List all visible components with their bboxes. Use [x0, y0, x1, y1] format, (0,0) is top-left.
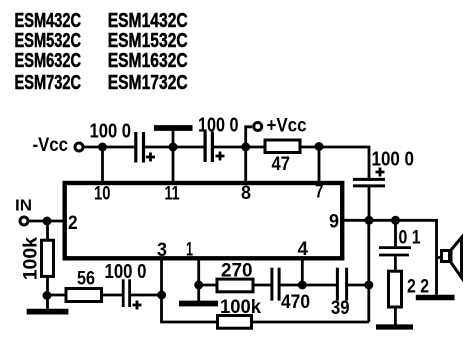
resistor 100k (input) [42, 240, 54, 276]
resistor 100k (feedback) [218, 316, 252, 329]
svg-text:0 1: 0 1 [399, 228, 421, 249]
svg-text:100 0: 100 0 [90, 121, 132, 143]
wire 270 to cap 470 [255, 284, 272, 287]
polarity + [216, 152, 225, 161]
wire IN to pin 2 [29, 220, 65, 223]
wire -Vcc rail [83, 146, 135, 149]
wire ground node to 56 [47, 294, 66, 297]
wire to pin 8 node [214, 146, 264, 149]
ground (below speaker) [416, 295, 455, 301]
svg-text:ESM532C: ESM532C [15, 30, 82, 52]
svg-text:4: 4 [298, 239, 309, 260]
wire right vertical (pin9 node to bottom corner) [367, 220, 370, 322]
junction pin 7 node [315, 142, 324, 151]
capacitor 100.0 (left supply decoupling) [136, 132, 144, 163]
svg-text:10: 10 [94, 184, 111, 205]
junction input node [43, 217, 52, 226]
junction pin 8 node [241, 143, 250, 152]
wire input node down to 100k [46, 221, 49, 240]
wire cap 39 to right vertical [348, 284, 369, 287]
wire pin 11 stub [172, 147, 175, 183]
svg-text:100k: 100k [21, 237, 42, 281]
wire pin 1 node to ground [197, 285, 200, 301]
wire speaker stub [437, 256, 441, 259]
node +Vcc terminal [246, 123, 262, 148]
svg-text:IN: IN [15, 198, 32, 215]
wire pin 9 output rail [342, 220, 437, 294]
wire 470 to pin 4 node and cap 39 [281, 284, 337, 287]
svg-text:2 2: 2 2 [407, 277, 429, 298]
svg-text:ESM1732C: ESM1732C [108, 72, 188, 94]
ground (below pin 1) [179, 301, 218, 307]
wire pin 1 node to 270 [199, 284, 216, 287]
svg-text:470: 470 [281, 292, 310, 313]
polarity + [376, 168, 385, 177]
part number list [15, 10, 188, 94]
junction pin 11 node [169, 143, 178, 152]
resistor 270 [217, 279, 253, 292]
svg-text:47: 47 [272, 154, 291, 175]
capacitor 39 [337, 268, 346, 301]
svg-text:100k: 100k [220, 297, 261, 318]
node IN terminal [20, 217, 28, 225]
polarity + [133, 301, 142, 310]
capacitor 470 [272, 268, 279, 301]
svg-text:ESM632C: ESM632C [15, 50, 82, 72]
svg-text:100 0: 100 0 [198, 115, 239, 137]
junction cap 39 node [364, 281, 373, 290]
wire 100k to ground node [46, 276, 49, 308]
wire pin 7 stub [318, 147, 321, 183]
svg-text:ESM1432C: ESM1432C [108, 10, 188, 32]
wire 100k to right vertical [253, 321, 369, 324]
wire pin 1 stub [197, 258, 200, 285]
junction Zobel node [391, 216, 400, 225]
capacitor 0.1 (Zobel) [379, 248, 411, 255]
wire between capacitors [145, 146, 204, 149]
junction pin 10 node [98, 143, 107, 152]
junction pin 1 node [194, 281, 203, 290]
polarity + [146, 153, 155, 162]
capacitor 100.0 (second supply decoupling) [205, 132, 212, 163]
speaker LS [442, 238, 462, 278]
wire pin 3 stub [160, 258, 163, 295]
junction pin 9 / bootstrap node [365, 216, 374, 225]
wire pin 8 stub [244, 147, 247, 183]
svg-text:270: 270 [221, 261, 253, 282]
node -Vcc terminal [75, 143, 83, 151]
ground (top, above pin 11) [154, 128, 193, 147]
wire pin7 node to right corner [302, 147, 370, 179]
junction pin 4 node [298, 281, 307, 290]
resistor 56 [66, 289, 102, 302]
op-amp IC ESMx32C (amplifier block) [65, 183, 343, 258]
ground (below 2.2) [376, 324, 413, 329]
svg-text:ESM1632C: ESM1632C [108, 50, 188, 72]
wire pin 10 stub [101, 147, 104, 183]
capacitor 100.0 (output supply, polarized) [353, 179, 385, 186]
svg-text:ESM1532C: ESM1532C [108, 30, 188, 52]
wire 2.2 to ground [394, 309, 397, 327]
svg-text:3: 3 [157, 240, 167, 261]
wire pin9 node to cap 0.1 [394, 220, 397, 246]
svg-text:11: 11 [165, 184, 180, 205]
resistor 2.2 (Zobel) [389, 271, 402, 307]
wire 56 to cap [102, 294, 124, 297]
svg-text:-Vcc: -Vcc [33, 135, 69, 156]
capacitor 100.0 (feedback, polarized) [123, 279, 129, 307]
svg-text:1: 1 [186, 240, 193, 261]
junction pin 3 node [157, 291, 166, 300]
svg-text:9: 9 [329, 212, 339, 233]
svg-text:39: 39 [331, 298, 350, 319]
ground (below input 100k) [27, 309, 69, 315]
resistor 47 [265, 140, 300, 153]
svg-text:ESM732C: ESM732C [15, 72, 82, 94]
svg-text:100 0: 100 0 [105, 261, 147, 283]
junction feedback node [43, 291, 52, 300]
wire cap to pin9 rail [368, 186, 371, 220]
wire cap 0.1 to resistor 2.2 [394, 257, 397, 270]
svg-text:56: 56 [77, 269, 95, 290]
svg-text:2: 2 [68, 213, 78, 234]
wire cap to pin 3 node [131, 294, 162, 297]
svg-text:ESM432C: ESM432C [15, 10, 82, 32]
wire pin 3 node down and right to 100k [162, 295, 218, 322]
svg-text:+Vcc: +Vcc [267, 116, 307, 137]
svg-text:7: 7 [315, 182, 324, 203]
svg-text:100 0: 100 0 [372, 149, 415, 171]
svg-text:8: 8 [241, 183, 251, 204]
wire pin 4 stub [301, 258, 304, 285]
